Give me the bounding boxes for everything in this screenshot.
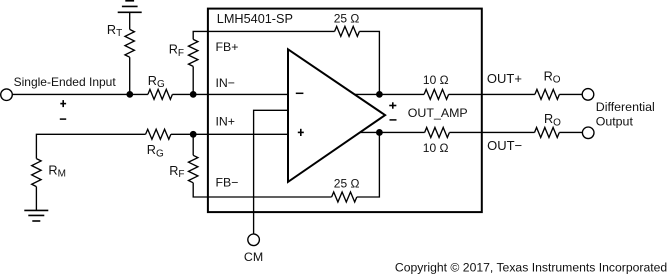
svg-text:OUT−: OUT− (487, 138, 522, 153)
svg-text:Output: Output (596, 115, 634, 129)
svg-text:RT: RT (107, 23, 122, 39)
svg-text:RO: RO (544, 112, 561, 128)
svg-text:CM: CM (244, 250, 263, 264)
svg-text:IN+: IN+ (216, 115, 235, 129)
svg-text:10 Ω: 10 Ω (423, 141, 449, 155)
svg-text:25 Ω: 25 Ω (334, 12, 360, 26)
svg-text:IN−: IN− (216, 76, 235, 90)
svg-text:OUT_AMP: OUT_AMP (408, 106, 468, 120)
svg-text:FB−: FB− (216, 176, 239, 190)
svg-text:25 Ω: 25 Ω (334, 177, 360, 191)
svg-text:RF: RF (169, 164, 184, 180)
svg-text:RM: RM (48, 163, 66, 179)
svg-text:RO: RO (544, 69, 561, 85)
svg-text:LMH5401-SP: LMH5401-SP (217, 12, 293, 26)
svg-text:RG: RG (148, 74, 165, 90)
svg-text:RF: RF (169, 43, 184, 59)
svg-text:10 Ω: 10 Ω (423, 73, 449, 87)
svg-text:OUT+: OUT+ (487, 71, 522, 86)
svg-text:Differential: Differential (596, 100, 655, 114)
svg-text:Copyright © 2017, Texas Instru: Copyright © 2017, Texas Instruments Inco… (395, 260, 667, 274)
svg-text:Single-Ended Input: Single-Ended Input (14, 75, 117, 89)
svg-text:RG: RG (147, 143, 164, 159)
svg-text:FB+: FB+ (216, 40, 239, 54)
